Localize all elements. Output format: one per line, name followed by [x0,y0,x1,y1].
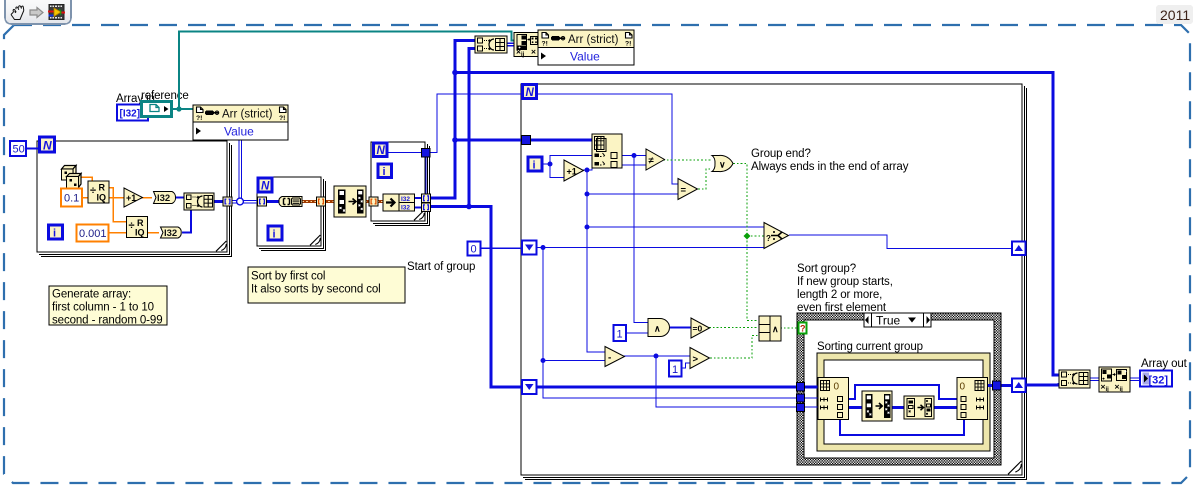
svg-text:>: > [693,354,699,365]
IPE right border node (array merge) [957,378,988,420]
wire: cluster array net (striped brown) [302,200,384,203]
svg-text:+1: +1 [567,167,577,177]
run arrow icon [30,8,43,18]
loop3 N terminal [374,143,388,157]
svg-text:≠: ≠ [649,156,655,167]
equal-zero node [691,318,710,338]
wire: green boolean dotted nets [663,160,799,358]
wire: 2D trunk from loop3 tunnel-1 up to top build-array [430,41,476,200]
wire: loop3 tunnel to main-loop N [430,94,523,153]
hand tool icon [11,6,24,20]
wire: loop1 internals (orange DBL) [79,177,159,233]
svg-text:0.001: 0.001 [79,228,107,240]
svg-text:Group end?: Group end? [751,148,811,160]
svg-text:?!: ?! [279,115,285,122]
for-loop 1 (generate array) frame [37,141,232,257]
svg-text:i: i [383,166,386,178]
svg-text:I32: I32 [401,204,410,211]
property node 1: Arr (strict) / Value [193,105,288,140]
free label: Array in / reference [116,90,189,105]
wire: main loop array input to Index Array [530,139,592,142]
constant 0.001 [77,225,109,242]
Array in terminal [117,105,148,121]
quotient-remainder node 1 [88,181,109,203]
for-loop 2 (sort by first col) frame [257,177,326,251]
top replace-array-subset node [514,33,538,59]
2011 version badge [1156,5,1193,24]
wire: i terminal branches [542,156,592,178]
loop3 right tunnels [422,194,431,212]
loop2 N terminal [258,178,272,193]
wire: 1a to AND [626,332,648,334]
svg-text:=0: =0 [693,324,703,334]
svg-text:Generate array:: Generate array: [52,289,131,301]
svg-text:Sort by first col: Sort by first col [251,271,325,283]
wire: SR1 distribution [537,248,798,399]
loop1 i terminal [49,225,63,240]
in-place-element structure [817,353,990,451]
main loop i terminal [528,157,542,172]
SR1 right (up arrow) [1012,242,1026,256]
loop1 N terminal [40,137,55,153]
wire: N of main loop to equals [537,94,678,184]
svg-text:i: i [53,228,56,240]
svg-text:N: N [261,181,270,193]
sort-1D-array icon [279,197,302,207]
wire: 2D array to junction ring and loop2 [230,140,258,203]
svg-text:even first element: even first element [797,302,887,314]
wire: index array outputs [621,156,649,323]
svg-text:Sort group?: Sort group? [797,263,856,275]
loop2 right tunnel (cluster) [317,197,326,206]
svg-text:IQ: IQ [97,193,107,203]
wire: IPE internal nets [840,385,1012,435]
svg-text:i: i [533,160,536,172]
svg-text:-: - [608,353,611,364]
constant 1b [669,361,682,377]
wire: loop3 N to edge tunnel [387,153,426,197]
svg-text:reference: reference [141,90,189,102]
wire: 2D trunk y140 into main loop [455,139,522,142]
junction: green diamond [744,233,751,240]
svg-text:i: i [273,229,276,241]
svg-text:Always ends in the end of arra: Always ends in the end of array [751,161,909,173]
wire: teal reference net [172,32,515,110]
compound arithmetic AND node [759,316,781,341]
IPE left border node (array split) [818,378,849,420]
wire: loop1 I32 outputs (blue) [175,198,191,233]
svg-text:I32: I32 [401,196,410,203]
svg-text:=: = [681,185,687,196]
junction: 2D ring [237,198,244,205]
free label: Sort group [797,263,893,314]
svg-text:Value: Value [224,125,254,139]
output build-array node [1059,370,1090,388]
constant 0.1 [61,189,82,207]
svg-text:R: R [99,183,106,193]
wire: case interior to IPE [804,387,819,407]
svg-text:÷: ÷ [90,185,96,197]
svg-text:R: R [137,218,144,228]
constant 0 [468,242,481,256]
svg-text:1: 1 [672,364,678,376]
svg-text:N: N [377,145,386,157]
wire: right SR2 to output build array [1024,383,1059,385]
svg-text:Arr (strict): Arr (strict) [568,34,619,46]
comment: generate array [49,286,167,327]
svg-text:Value: Value [570,50,600,64]
tools palette fragment (top-left) [5,0,71,24]
increment +1 node (main loop) [564,160,584,181]
svg-text:second - random 0-99: second - random 0-99 [52,315,163,327]
svg-text:IQ: IQ [135,228,145,238]
svg-text:length 2 or more,: length 2 or more, [797,289,882,301]
svg-text:[I32]: [I32] [120,109,141,120]
loop3 left tunnel (cluster) [369,197,378,206]
not-equal node [646,149,665,170]
svg-text:2011: 2011 [1160,7,1190,23]
OR gate [712,155,733,171]
main loop array-in tunnel (solid) [522,136,531,145]
quotient-remainder node 2 [127,217,148,238]
select node [764,223,789,249]
case input tunnels (solid) [797,383,805,412]
wire: subtract output, > column [624,356,798,407]
svg-text:If new group starts,: If new group starts, [797,276,893,288]
svg-text:?: ? [766,234,771,243]
top build-array node [475,36,507,53]
svg-text:1: 1 [617,329,623,341]
to-I32 conversion 2 [161,227,182,239]
svg-text:0.1: 0.1 [64,193,79,205]
svg-text:+1: +1 [126,193,136,203]
svg-text:True: True [876,314,901,328]
wire: select output to right shift register [789,235,1012,249]
SR1 left (down arrow) [522,241,537,255]
svg-text:I32: I32 [164,228,177,239]
case structure (True) [797,313,1001,465]
svg-text:[32]: [32] [1149,375,1169,387]
equal node [678,179,698,200]
SR2 left (down arrow) [522,380,537,394]
free label: Group end [751,148,909,173]
wire: AND to equals-zero [670,327,691,329]
svg-text:∨: ∨ [719,160,726,170]
wire: +1 output and x587 column [583,165,764,352]
cluster-to-array node [334,186,366,217]
svg-text:Array out: Array out [1141,358,1188,370]
svg-text:?!: ?! [542,41,548,48]
wire: 2D trunk y72 to far right column [455,73,1059,376]
loop1 output tunnel [223,197,232,206]
case selector ? terminal [799,323,807,334]
loop2 i terminal [268,226,282,241]
build-array node (loop1) [184,193,214,210]
increment +1 node [124,188,143,207]
svg-text:Arr (strict): Arr (strict) [222,109,273,121]
wire: top build-array to replace 2D double [506,43,515,46]
svg-text:?: ? [800,324,806,334]
output replace-array-subset node [1099,367,1130,393]
svg-text:N: N [43,139,52,153]
SR2 right (up arrow) [1012,379,1026,393]
svg-text:×: × [531,47,536,57]
random dice icon [62,166,82,189]
svg-text:÷: ÷ [129,220,135,232]
svg-text:first column - 1 to 10: first column - 1 to 10 [52,302,154,314]
wire: 50 to N [25,148,38,150]
unbundle node [383,194,415,211]
loop3 top-right tunnel (solid) [422,149,431,158]
comment: sort by first col [248,267,405,303]
IPE sort-1D-array node [862,391,892,421]
wire: loop1 build-array out through tunnel [214,200,224,203]
greater-than node [690,348,710,369]
wire: 2D trunk from loop3 tunnel-2 to shift register SR2 [430,49,522,388]
svg-text:I32: I32 [157,193,170,204]
subtract node [605,347,625,367]
case output tunnel (solid) [993,381,1002,390]
svg-text:∧: ∧ [654,324,661,334]
wire: loop2 sort input [265,200,280,203]
for-loop 3 (row clusters) frame [371,142,430,226]
wire: 0 constant to SR1 [480,247,522,249]
svg-text:?!: ?! [196,115,202,122]
svg-text:0: 0 [834,382,840,393]
constant 1a [614,325,627,341]
svg-text:Sorting current group: Sorting current group [817,341,923,353]
svg-text:0: 0 [960,382,966,393]
to-I32 conversion 1 [154,192,176,205]
AND gate [648,319,670,337]
wire: SR2 out along bottom to case tunnel [537,386,798,389]
Array out indicator [1140,371,1172,387]
property node 2: Arr (strict) / Value [538,30,634,65]
svg-text:?!: ?! [625,41,631,48]
svg-text:It also sorts by second col: It also sorts by second col [251,284,381,296]
index-array node [592,134,622,168]
wire: output 2D doubles [1089,378,1140,381]
constant 50 [10,141,26,156]
junction: teal dot [176,106,181,111]
junction dots on trunks [452,70,472,210]
svg-text:50: 50 [13,144,25,156]
wire: loop3 unbundle outputs to tunnels [414,198,423,208]
svg-text:∧: ∧ [772,324,779,334]
VI icon [48,5,65,20]
IPE array-to-cluster node [904,396,934,419]
svg-text:Start of group: Start of group [407,261,475,273]
reference property node (teal) [142,102,172,117]
junction dots (thin nets) [541,153,659,363]
svg-text:0: 0 [471,244,477,256]
svg-text:N: N [526,87,535,99]
main for-loop frame [521,84,1027,480]
loop3 i terminal [378,164,392,178]
case selector label "True" [864,313,931,328]
main loop N terminal [523,85,537,99]
loop2 left tunnel [258,197,267,206]
